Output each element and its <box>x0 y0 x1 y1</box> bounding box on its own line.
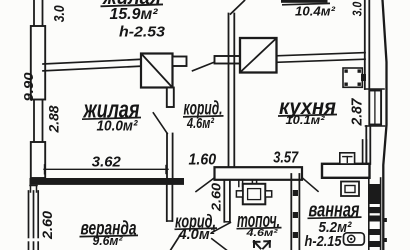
flue hatch column in right wall <box>369 178 387 250</box>
boiler in topoch <box>236 184 271 205</box>
svg-text:h-2.53: h-2.53 <box>119 25 165 41</box>
svg-text:3.57: 3.57 <box>273 150 299 167</box>
stove P2 in kitchen <box>240 38 277 73</box>
window W1 left upper <box>31 26 45 100</box>
stair arrows in topoch <box>254 241 270 249</box>
svg-text:4.0м²: 4.0м² <box>178 226 216 243</box>
svg-text:9.6м²: 9.6м² <box>93 233 124 248</box>
sink in kitchen <box>340 153 355 164</box>
svg-text:15.9м²: 15.9м² <box>110 6 159 23</box>
svg-text:10.4м²: 10.4м² <box>295 3 336 18</box>
door D6 leaf (korid4.0 bottom) <box>212 239 227 250</box>
svg-text:9.90: 9.90 <box>21 72 36 102</box>
window W3 kitchen right wall <box>365 89 385 126</box>
wire korid4.0 right wall <box>224 180 230 222</box>
svg-text:3.0: 3.0 <box>351 2 365 17</box>
svg-text:2.88: 2.88 <box>46 105 62 133</box>
wire wall between zhilaya15.9 and zhilaya10.0 <box>43 59 141 71</box>
svg-text:4.6м²: 4.6м² <box>245 227 278 239</box>
wall bar C vannaya top <box>322 164 370 178</box>
svg-text:3.0: 3.0 <box>52 5 68 22</box>
door D1 jamb <box>215 56 241 64</box>
dimension line 3.62 <box>44 165 168 174</box>
svg-text:1.60: 1.60 <box>189 152 217 169</box>
wire veranda left wall <box>27 186 40 250</box>
door D8 leaf top (between top rooms) <box>231 1 245 15</box>
wire right wall mid inner lines <box>366 126 370 164</box>
wire wall zhilaya10.0/korid lower segment <box>167 134 173 179</box>
svg-text:2.60: 2.60 <box>40 210 55 240</box>
svg-text:10.0м²: 10.0м² <box>97 118 139 135</box>
bathroom sink fixture <box>341 182 359 197</box>
svg-text:h-2.15: h-2.15 <box>305 234 343 250</box>
electric stove with corner dots in kitchen <box>343 68 366 87</box>
stove P1 in zhilaya 15.9 <box>141 54 187 108</box>
wire korid4.0 left wall <box>167 185 173 221</box>
door D7 leaf (vannaya) <box>302 178 318 192</box>
partition stub kitchen right <box>362 140 364 164</box>
svg-text:2.60: 2.60 <box>210 183 224 212</box>
svg-text:4.6м²: 4.6м² <box>186 115 214 132</box>
window W2 left lower <box>31 142 45 178</box>
door D1 leaf (zhilaya15.9 to korid) <box>193 62 215 71</box>
door D5 leaf (korid4.0 bottom right) <box>212 223 231 233</box>
svg-text:3.62: 3.62 <box>92 154 122 171</box>
toilet symbol <box>344 233 365 245</box>
wire left outer wall lines <box>34 0 43 183</box>
svg-text:2.87: 2.87 <box>350 98 366 127</box>
wire wall topoch/vannaya <box>291 174 299 250</box>
door D4 leaf (korid4.0 to veranda) <box>171 233 182 250</box>
door D3 leaf (korid4.6 to korid4.0) <box>196 178 215 192</box>
wire kitchen top wall <box>277 53 366 63</box>
door D2 leaf (korid to zhilaya10.0) <box>153 113 167 134</box>
svg-text:10.1м²: 10.1м² <box>286 113 326 127</box>
wire right wall upper inner lines <box>365 0 370 89</box>
wire right wall outer line <box>383 0 387 250</box>
wall bar B topoch top <box>215 167 303 180</box>
wall bar A veranda top <box>30 179 184 185</box>
boiler pipe stubs under bar B <box>239 180 257 187</box>
label zhilaya 10.4 (cut at top) <box>281 0 328 3</box>
wire wall korid/kuhnya vertical <box>229 14 235 168</box>
